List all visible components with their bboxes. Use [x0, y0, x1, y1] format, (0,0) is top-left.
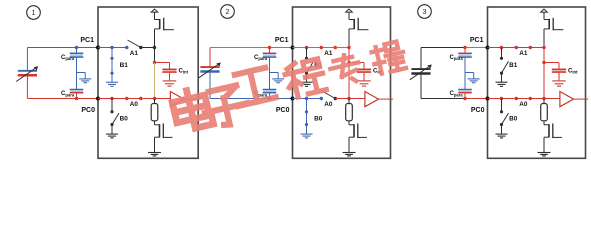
node: B1 tap on PC1 line circuit 3: [500, 46, 503, 49]
node: A1/transistor junction circuit 2: [347, 46, 350, 49]
svg-text:B1: B1: [509, 62, 518, 69]
svg-text:2: 2: [225, 7, 229, 16]
variable sensor capacitor Cx circuit 3: [410, 65, 432, 80]
node: B0 tap on PC0 line circuit 1: [110, 97, 113, 100]
resistor R circuit 3: [541, 99, 548, 121]
transistor M0 (bottom) circuit 3: [544, 121, 562, 138]
op-amp buffer circuit 3: [560, 92, 574, 107]
node: B0 tap on PC0 line circuit 3: [500, 97, 503, 100]
switch B1 circuit 2: [305, 48, 314, 75]
switch A1 circuit 2: [320, 46, 337, 49]
switch A1 circuit 1: [125, 40, 142, 49]
wire: down to Cint node circuit 3: [543, 48, 545, 63]
VDD arrow circuit 2: [346, 9, 353, 12]
wire: switch A0 to resistor node circuit 3: [530, 98, 544, 100]
node: PC1 pin on box edge circuit 2: [291, 46, 295, 50]
wire: PC1 line from Cpara junction to box edge circuit 3: [465, 47, 488, 49]
op-amp buffer circuit 2: [365, 92, 379, 107]
svg-text:Cpara: Cpara: [450, 91, 464, 97]
svg-text:1: 1: [31, 8, 35, 17]
node: A1/transistor junction circuit 3: [542, 46, 545, 49]
switch A0 circuit 1: [125, 97, 142, 100]
switch A1 circuit 3: [515, 46, 532, 49]
transistor M1 (top, to VDD) circuit 1: [155, 12, 174, 30]
node: Cint junction circuit 3: [542, 61, 545, 64]
svg-text:Cpara: Cpara: [61, 91, 75, 97]
transistor M1 (top, to VDD) circuit 3: [544, 12, 563, 30]
resistor R circuit 2: [346, 99, 353, 121]
svg-text:Cint: Cint: [568, 69, 578, 75]
wire: PC1 inside box to switch A1 circuit 2: [293, 47, 322, 49]
wire: PC0 inside box to switch A0 circuit 1: [98, 98, 127, 100]
wire: PC1 line from Cpara junction to box edge circuit 2: [270, 47, 293, 49]
wire: sensor bottom plate to PC0 line circuit 3: [421, 74, 465, 99]
op-amp buffer circuit 1: [170, 92, 184, 107]
wire: Cint node down to PC0 node circuit 3: [543, 63, 545, 99]
box (IC boundary) circuit 3: [488, 7, 586, 158]
svg-text:Cint: Cint: [179, 69, 189, 75]
capacitor Cpara (bottom) circuit 2: [263, 73, 277, 99]
svg-text:PC0: PC0: [276, 107, 290, 114]
ground below transistor M0 circuit 1: [148, 137, 161, 156]
capacitor Cint circuit 3: [544, 63, 566, 81]
wire: switch A0 to resistor node circuit 1: [141, 98, 155, 100]
ground below transistor M0 circuit 2: [343, 137, 356, 156]
node: PC1 junction at Cpara stack circuit 3: [463, 46, 466, 49]
svg-text:PC1: PC1: [470, 37, 484, 44]
node: B0 tap on PC0 line circuit 2: [305, 97, 308, 100]
wire: PC0 node to buffer input circuit 2: [349, 98, 365, 100]
ground below B1 circuit 1: [106, 73, 118, 86]
ground below B1 circuit 2: [301, 73, 313, 86]
svg-text:Cpara: Cpara: [61, 55, 75, 61]
wire: buffer output to box edge circuit 1: [184, 98, 201, 100]
svg-text:Cpara: Cpara: [254, 55, 268, 61]
node: B1 tap on PC1 line circuit 1: [110, 46, 113, 49]
switch B1 circuit 3: [500, 48, 509, 75]
capacitor Cint circuit 2: [349, 63, 371, 81]
svg-text:B1: B1: [120, 62, 129, 69]
ground below B0 circuit 3: [496, 125, 508, 138]
ground below B0 circuit 1: [106, 125, 118, 138]
svg-text:B0: B0: [314, 115, 323, 122]
switch B1 circuit 1: [110, 48, 113, 75]
node: B1 tap on PC1 line circuit 2: [305, 46, 308, 49]
ground (between Cpara) circuit 2: [270, 73, 285, 83]
svg-text:Cpara: Cpara: [450, 55, 464, 61]
wire: down to Cint node circuit 2: [348, 48, 350, 63]
wire: switch A1 to transistor node circuit 2: [335, 47, 349, 49]
svg-text:3: 3: [422, 7, 426, 16]
switch B0 circuit 2: [305, 99, 308, 127]
box (IC boundary) circuit 1: [98, 7, 198, 158]
wire: PC0 node to buffer input circuit 1: [155, 98, 171, 100]
wire: switch A1 to transistor node circuit 3: [530, 47, 544, 49]
ground below transistor M0 circuit 3: [538, 137, 551, 156]
resistor R circuit 1: [151, 99, 158, 121]
step number 1 circle: [27, 6, 41, 20]
wire: transistor source down to A1 node circuit 1: [154, 29, 156, 48]
transistor M1 (top, to VDD) circuit 2: [349, 12, 368, 30]
wire: PC0 inside box to switch A0 circuit 2: [293, 98, 322, 100]
svg-text:B0: B0: [120, 115, 129, 122]
node: PC1 junction at Cpara stack circuit 1: [75, 46, 78, 49]
svg-text:A1: A1: [130, 50, 139, 57]
svg-text:PC0: PC0: [81, 107, 95, 114]
node: PC0/resistor junction circuit 3: [542, 97, 545, 100]
svg-text:B0: B0: [509, 115, 518, 122]
transistor M0 (bottom) circuit 1: [155, 121, 173, 138]
wire: buffer output to box edge circuit 2: [379, 98, 394, 100]
variable sensor capacitor Cx circuit 1: [16, 66, 38, 81]
wire: PC0 line from Cpara junction to box edge circuit 1: [77, 98, 99, 100]
wire: switch A0 to resistor node circuit 2: [335, 98, 349, 100]
switch B0 circuit 3: [500, 99, 509, 127]
node: PC0/resistor junction circuit 1: [153, 97, 156, 100]
capacitor Cpara (top) circuit 2: [263, 48, 277, 73]
ground (between Cpara) circuit 1: [77, 73, 92, 83]
svg-text:PC1: PC1: [275, 37, 289, 44]
svg-text:A0: A0: [130, 101, 139, 108]
svg-text:A1: A1: [324, 50, 333, 57]
node: PC1 pin on box edge circuit 3: [486, 46, 490, 50]
capacitor Cint circuit 1: [155, 63, 177, 81]
node: PC0 junction at Cpara stack circuit 2: [268, 97, 271, 100]
wire: Cint node down to PC0 node circuit 2: [348, 63, 350, 99]
wire: sensor top plate to PC1 line circuit 2: [210, 48, 270, 68]
wire: PC0 node to buffer input circuit 3: [544, 98, 560, 100]
node: PC1 junction at Cpara stack circuit 2: [268, 46, 271, 49]
wire: PC0 inside box to switch A0 circuit 3: [488, 98, 517, 100]
ground below B1 circuit 3: [496, 73, 508, 86]
wire: sensor top plate to PC1 line circuit 1: [27, 48, 76, 71]
box (IC boundary) circuit 2: [293, 7, 391, 158]
capacitor Cpara (bottom) circuit 3: [458, 73, 472, 99]
wire: sensor bottom plate to PC0 line circuit 1: [27, 75, 76, 98]
wire: PC0 line from Cpara junction to box edge circuit 2: [270, 98, 293, 100]
wire: transistor source down to A1 node circuit 2: [348, 29, 350, 48]
node: PC0 junction at Cpara stack circuit 1: [75, 97, 78, 100]
svg-text:PC0: PC0: [471, 107, 485, 114]
wire: PC1 inside box to switch A1 circuit 3: [488, 47, 517, 49]
switch A0 circuit 3: [515, 97, 532, 100]
wire: sensor bottom plate to PC0 line circuit 2: [210, 72, 270, 99]
ground below B0 circuit 2: [301, 125, 313, 138]
wire: PC0 line from Cpara junction to box edge circuit 3: [465, 98, 488, 100]
node: PC0 junction at Cpara stack circuit 3: [463, 97, 466, 100]
svg-text:A1: A1: [519, 50, 528, 57]
wire: Cint node down to PC0 node circuit 1: [154, 63, 156, 99]
svg-text:PC1: PC1: [80, 37, 94, 44]
switch B0 circuit 1: [110, 99, 119, 127]
node: PC1 pin on box edge circuit 1: [96, 46, 100, 50]
node: A1/transistor junction circuit 1: [153, 46, 156, 49]
wire: sensor top plate to PC1 line circuit 3: [421, 48, 465, 70]
node: Cint junction circuit 2: [347, 61, 350, 64]
wire: switch A1 to transistor node circuit 1: [141, 47, 155, 49]
wire: down to Cint node circuit 1: [154, 48, 156, 63]
VDD arrow circuit 3: [541, 9, 548, 12]
wire: buffer output to box edge circuit 3: [574, 98, 589, 100]
ground (between Cpara) circuit 3: [465, 73, 480, 83]
node: PC0 pin on box edge circuit 2: [291, 97, 295, 101]
capacitor Cpara (top) circuit 3: [458, 48, 472, 73]
ground below Cint circuit 3: [552, 81, 565, 86]
node: PC0 pin on box edge circuit 3: [486, 97, 490, 101]
watermark text (simplified CJK strokes): [170, 41, 406, 132]
switch A0 circuit 2: [320, 91, 337, 100]
node: PC0/resistor junction circuit 2: [347, 97, 350, 100]
wire: PC1 inside box to switch A1 circuit 1: [98, 47, 127, 49]
variable sensor capacitor Cx circuit 2: [199, 63, 221, 78]
capacitor Cpara (top) circuit 1: [70, 48, 84, 73]
node: PC0 pin on box edge circuit 1: [96, 97, 100, 101]
transistor M0 (bottom) circuit 2: [349, 121, 367, 138]
wire: PC1 line from Cpara junction to box edge circuit 1: [77, 47, 99, 49]
svg-text:A0: A0: [519, 101, 528, 108]
step number 2 circle: [221, 5, 235, 19]
step number 3 circle: [418, 5, 432, 19]
ground below Cint circuit 1: [163, 81, 177, 86]
VDD arrow circuit 1: [151, 9, 158, 12]
node: Cint junction circuit 1: [153, 61, 156, 64]
capacitor Cpara (bottom) circuit 1: [70, 73, 84, 99]
ground below Cint circuit 2: [357, 81, 370, 86]
wire: transistor source down to A1 node circuit 3: [543, 29, 545, 48]
svg-text:A0: A0: [324, 101, 333, 108]
